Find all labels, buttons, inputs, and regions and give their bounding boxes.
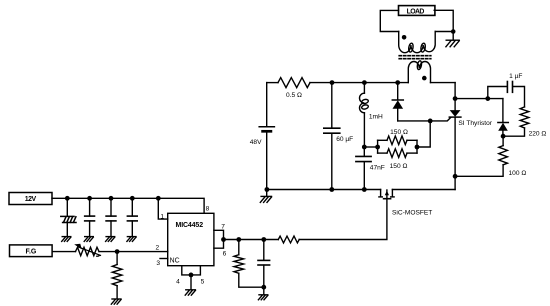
pin 3 NC stub [160, 258, 168, 260]
svg-text:NC: NC [170, 258, 180, 265]
capacitor 47nF [356, 147, 371, 190]
capacitor C2 [85, 198, 95, 236]
node 1mH bottom [362, 145, 367, 150]
resistor 0.5 ohm [267, 82, 278, 84]
ground under U1 [185, 290, 195, 295]
node at R-out [236, 237, 241, 242]
node gate [428, 119, 433, 124]
battery 48V [259, 83, 274, 190]
resistor 150 ohm bottom [378, 149, 417, 158]
capacitor 60uF [324, 83, 340, 190]
node 150 pair left [375, 145, 380, 150]
wire HV top rail [310, 82, 408, 84]
node on rail at pin1 branch [156, 196, 161, 201]
svg-text:1mH: 1mH [369, 113, 383, 120]
wire MOSFET drain to thyristor [392, 189, 455, 191]
node on rail at C2 [87, 196, 92, 201]
wire output line [224, 239, 279, 241]
svg-text:F.G: F.G [26, 249, 37, 256]
node on rail at C4 [130, 196, 135, 201]
thyristor Q1 [449, 83, 461, 190]
svg-text:12V: 12V [25, 196, 37, 203]
electrolytic capacitor C1 [61, 198, 76, 236]
node bottom-left corner [265, 187, 270, 192]
svg-text:1: 1 [160, 214, 164, 221]
svg-text:8: 8 [206, 206, 210, 213]
svg-text:47nF: 47nF [370, 165, 385, 172]
svg-text:220 Ω: 220 Ω [529, 131, 547, 138]
svg-text:150 Ω: 150 Ω [390, 129, 408, 136]
svg-text:150 Ω: 150 Ω [390, 163, 408, 170]
ground under C3 [106, 237, 115, 242]
ground under C1 [62, 237, 71, 242]
svg-text:LOAD: LOAD [407, 8, 425, 15]
wire pair right to gate node [417, 121, 430, 147]
ground under C2 [84, 237, 93, 242]
wire D1 to thyristor gate [398, 117, 451, 121]
resistor 220 ohm [503, 107, 529, 136]
node output [221, 237, 226, 242]
wire snubber top [455, 98, 503, 100]
svg-text:1 µF: 1 µF [509, 73, 522, 80]
resistor 150 ohm top [378, 136, 417, 145]
svg-text:6: 6 [223, 251, 227, 258]
node pins45 [189, 273, 194, 278]
wire HV bottom rail [267, 189, 381, 191]
capacitor C-out [258, 240, 270, 295]
node 150 pair right [415, 145, 420, 150]
resistor R-FG pulldown [112, 252, 122, 299]
input terminal F.G [10, 245, 53, 257]
svg-text:48V: 48V [250, 139, 262, 146]
node at D1 [395, 80, 400, 85]
node bottom at 60uF [329, 187, 334, 192]
node on rail at C3 [109, 196, 114, 201]
ground under R-FG [111, 299, 121, 304]
op-amp driver U1 MIC4452 [168, 213, 214, 265]
wire 1uF to 220 ohm [514, 87, 525, 107]
wire pins 4,5 to ground [182, 266, 201, 275]
wire pins 7,6 output [214, 230, 224, 248]
capacitor C3 [106, 198, 116, 236]
load box [399, 6, 435, 16]
svg-text:5: 5 [201, 279, 205, 286]
wire gate [299, 199, 387, 240]
input terminal 12V [9, 193, 52, 205]
resistor R-gate [278, 236, 299, 243]
wire load left [380, 10, 398, 31]
svg-text:0.5 Ω: 0.5 Ω [286, 92, 302, 99]
ground HV rail [266, 190, 268, 197]
svg-text:SiC-MOSFET: SiC-MOSFET [392, 209, 432, 216]
node F.G junction [115, 249, 120, 254]
polarity dot secondary [422, 76, 427, 81]
capacitor 1uF [506, 82, 508, 93]
resistor 100 ohm [455, 136, 507, 176]
node on rail at C1 [65, 196, 70, 201]
svg-text:60 µF: 60 µF [336, 136, 353, 143]
inductor 1mH [360, 83, 369, 147]
node bottom at 47nF [362, 187, 367, 192]
svg-text:100 Ω: 100 Ω [509, 170, 527, 177]
svg-text:4: 4 [176, 279, 180, 286]
transformer secondary [408, 61, 430, 83]
ground under C-out [258, 295, 267, 300]
polarity dot primary [402, 35, 407, 40]
node at 1mH [362, 80, 367, 85]
node thyristor cathode bottom [453, 174, 458, 179]
svg-text:7: 7 [221, 224, 225, 231]
ground under load [452, 32, 454, 41]
wire potentiometer to pin2 [99, 251, 168, 253]
svg-text:MIC4452: MIC4452 [176, 222, 204, 229]
svg-text:2: 2 [156, 244, 160, 251]
transistor Q2 SiC-MOSFET [379, 190, 394, 199]
ground under C4 [127, 237, 136, 242]
wire load right [434, 10, 453, 31]
resistor R-out vertical [234, 240, 264, 288]
svg-text:SI Thyristor: SI Thyristor [458, 120, 492, 127]
wire pin1 [158, 198, 167, 219]
wire to 150 ohm pair [364, 146, 377, 148]
node thyristor anode [453, 96, 458, 101]
node load right [451, 29, 456, 34]
transformer core [399, 55, 431, 57]
diode D2 [498, 99, 508, 137]
diode D1 [392, 83, 403, 121]
wire 12V rail [52, 198, 204, 213]
transformer primary [399, 32, 436, 53]
node C-out bottom [261, 285, 266, 290]
node snubber [485, 96, 490, 101]
potentiometer VR1 [74, 244, 100, 257]
node at 60uF [330, 80, 335, 85]
wire F.G to potentiometer [52, 251, 75, 253]
wire secondary right [431, 82, 456, 84]
svg-text:3: 3 [156, 260, 160, 267]
node D2 bottom [501, 134, 506, 139]
wire to 1uF cap [488, 87, 507, 99]
wire 150 pair verticals [377, 140, 379, 153]
capacitor C4 [127, 198, 137, 236]
node at C-out [261, 237, 266, 242]
